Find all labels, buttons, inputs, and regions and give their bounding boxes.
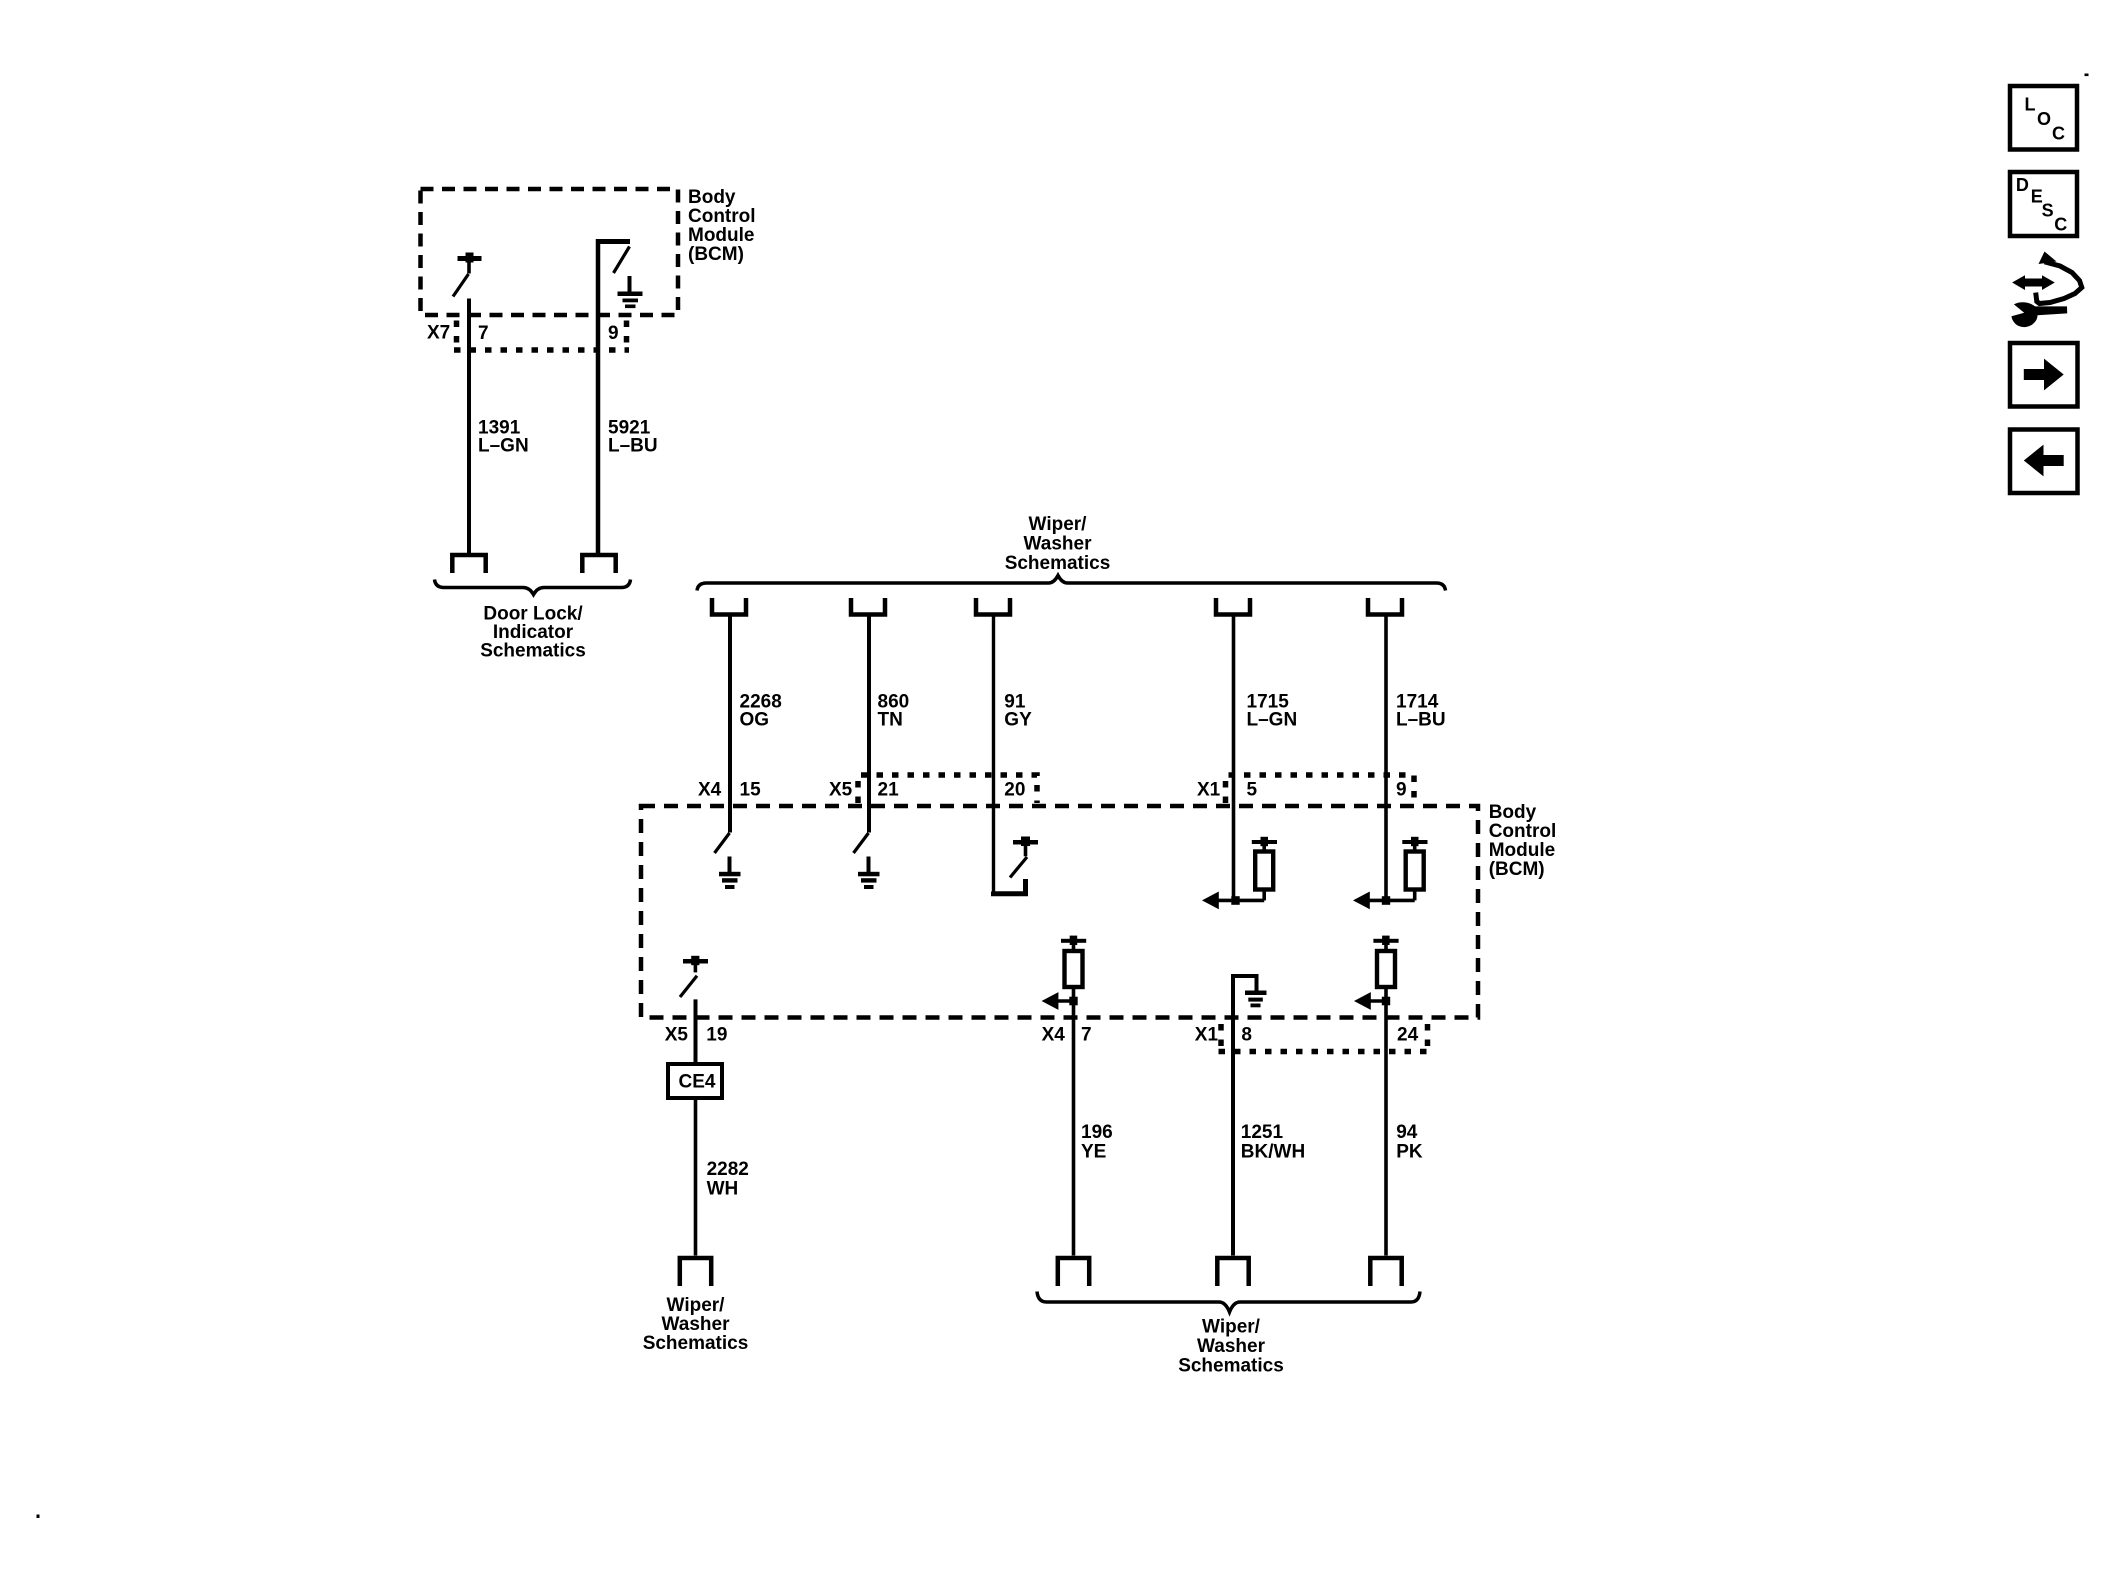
svg-text:9: 9 xyxy=(1396,780,1407,801)
nav icon LOC button xyxy=(2010,86,2077,150)
wire 1715 L-GN xyxy=(1232,616,1236,900)
svg-text:Wiper/: Wiper/ xyxy=(1029,514,1088,535)
driver D-B9 contact (bar with nub, pin 24) xyxy=(1373,936,1398,945)
off-page connector (1715 wire, legs up) xyxy=(1216,598,1250,615)
wire label 94 PK xyxy=(1396,1122,1423,1163)
nav icon wrench xyxy=(2012,302,2068,327)
switch S-B3 lower terminal L-bracket (pin 20) xyxy=(994,879,1026,894)
svg-text:O: O xyxy=(2037,109,2051,129)
BCM box B (dashed outline, main Body Control Module) xyxy=(641,806,1478,1018)
svg-text:24: 24 xyxy=(1397,1025,1419,1046)
svg-text:X5: X5 xyxy=(665,1025,689,1046)
svg-text:YE: YE xyxy=(1081,1142,1106,1163)
svg-text:L–GN: L–GN xyxy=(478,436,529,457)
stray mark bottom left xyxy=(37,1515,40,1519)
driver D-B5 output line with junction dot xyxy=(1367,896,1415,905)
svg-text:X5: X5 xyxy=(829,780,853,801)
svg-text:Control: Control xyxy=(1489,821,1557,842)
switch S-A2 top horizontal arm xyxy=(596,239,630,244)
wire 860 TN xyxy=(867,616,871,833)
wire 2282 WH (below CE4) xyxy=(694,1098,698,1256)
svg-text:Wiper/: Wiper/ xyxy=(667,1295,726,1316)
svg-text:X4: X4 xyxy=(698,780,722,801)
svg-text:X4: X4 xyxy=(1042,1025,1066,1046)
nav icon back-arrow button xyxy=(2010,430,2078,494)
driver D-B7 junction dot xyxy=(1069,987,1077,1005)
wire pin 9 vertical xyxy=(596,239,601,554)
off-page connector (860 wire, legs up) xyxy=(851,598,885,615)
wire 2268 OG xyxy=(728,616,732,833)
switch S-B3 blade xyxy=(1010,857,1027,878)
nav icon double-arrow xyxy=(2012,275,2055,290)
wire label 5921 L-BU xyxy=(608,418,658,457)
nav icon next-arrow button xyxy=(2010,343,2078,407)
svg-text:Module: Module xyxy=(688,225,755,246)
wire label 860 TN xyxy=(878,692,910,731)
off-page connector (pin9 wire, legs down) xyxy=(582,555,615,573)
connector X1 dotted box (pins 8,24) xyxy=(1219,1024,1431,1052)
off-page connector (91 wire, legs up) xyxy=(976,598,1010,615)
label: Wiper/Washer Schematics (top middle) xyxy=(1005,514,1111,574)
svg-text:5: 5 xyxy=(1247,780,1258,801)
svg-text:L: L xyxy=(2025,95,2036,115)
driver D-B4 arrowhead (left) xyxy=(1202,892,1219,910)
stray mark top right xyxy=(2085,74,2089,77)
wire 91 GY xyxy=(992,616,995,892)
driver D-B9 resistor xyxy=(1377,943,1395,987)
svg-text:C: C xyxy=(2052,124,2065,144)
wire pin 19 down to CE4 xyxy=(694,999,698,1064)
svg-text:L–GN: L–GN xyxy=(1247,710,1298,731)
svg-text:19: 19 xyxy=(706,1025,727,1046)
switch S-B3 contact (bar with nub) xyxy=(1013,837,1038,847)
svg-text:X1: X1 xyxy=(1197,780,1221,801)
switch S-B6 blade xyxy=(680,976,697,997)
driver D-B5 resistor xyxy=(1406,844,1424,900)
ground symbol G-B1 xyxy=(719,857,741,890)
svg-text:94: 94 xyxy=(1396,1122,1418,1143)
switch S-B6 contact (bar with nub, pin X5-19) xyxy=(683,956,708,965)
svg-text:1251: 1251 xyxy=(1241,1122,1284,1143)
svg-text:TN: TN xyxy=(878,710,903,731)
connector X5 dotted box (pins 21,20) xyxy=(858,775,1037,803)
ground symbol G-B2 xyxy=(858,857,880,890)
svg-text:Schematics: Schematics xyxy=(1178,1356,1284,1377)
BCM box A (dashed outline, top-left Body Control Module) xyxy=(421,189,679,315)
driver D-B4 output line with junction dot xyxy=(1216,896,1264,905)
svg-text:15: 15 xyxy=(740,780,762,801)
wire label 196 YE xyxy=(1081,1122,1113,1163)
svg-text:8: 8 xyxy=(1241,1025,1252,1046)
wire 1714 L-BU xyxy=(1384,616,1388,900)
svg-text:GY: GY xyxy=(1004,710,1032,731)
driver D-B9 junction dot xyxy=(1382,987,1390,1005)
svg-text:7: 7 xyxy=(1081,1025,1092,1046)
off-page connector (94 wire, legs down) xyxy=(1370,1258,1401,1286)
wire label 91 GY xyxy=(1004,692,1032,731)
svg-text:WH: WH xyxy=(707,1179,739,1200)
switch S-B1 blade (pin 15) xyxy=(715,833,730,853)
svg-text:Module: Module xyxy=(1489,840,1556,861)
wire label 2268 OG xyxy=(740,692,782,731)
svg-text:OG: OG xyxy=(740,710,770,731)
wire pin X1-8 down xyxy=(1231,974,1235,1256)
svg-text:Control: Control xyxy=(688,206,756,227)
svg-text:CE4: CE4 xyxy=(679,1072,716,1093)
driver D-B5 arrowhead (left) xyxy=(1353,892,1370,910)
driver D-B4 resistor xyxy=(1255,844,1273,900)
off-page connector (2268 wire, legs up) xyxy=(712,598,746,615)
off-page connector (196 wire, legs down) xyxy=(1058,1258,1089,1286)
switch S-A1 blade xyxy=(453,274,469,297)
driver D-B7 contact (bar with nub, pin X4-7) xyxy=(1061,936,1086,945)
svg-text:Wiper/: Wiper/ xyxy=(1202,1317,1261,1338)
driver D-B9 arrow (left) xyxy=(1354,992,1386,1010)
switch S-A1 fixed contact (bar with nub) xyxy=(458,253,482,263)
ground symbol G-B8 xyxy=(1245,991,1267,1008)
svg-text:Schematics: Schematics xyxy=(480,641,586,662)
brace (Wiper/Washer top, apex up) xyxy=(697,576,1446,591)
svg-text:(BCM): (BCM) xyxy=(688,244,744,265)
off-page connector (1251 wire, legs down) xyxy=(1217,1258,1248,1286)
svg-text:PK: PK xyxy=(1396,1142,1423,1163)
splice box CE4 xyxy=(668,1064,722,1098)
svg-text:Schematics: Schematics xyxy=(643,1333,749,1354)
wire label 2282 WH xyxy=(707,1159,749,1200)
switch S-B6 contact lead xyxy=(694,964,698,972)
switch S-B3 contact lead xyxy=(1024,845,1028,856)
ground branch (pin X1-8) top jog xyxy=(1233,976,1257,991)
driver D-B7 arrow (left) xyxy=(1042,992,1074,1010)
label: Door Lock / Indicator Schematics xyxy=(480,604,586,662)
svg-text:2282: 2282 xyxy=(707,1159,749,1180)
svg-text:196: 196 xyxy=(1081,1122,1113,1143)
svg-text:Body: Body xyxy=(688,187,736,208)
svg-text:Washer: Washer xyxy=(1197,1336,1266,1357)
off-page connector (1714 wire, legs up) xyxy=(1368,598,1402,615)
wire pin 24 down xyxy=(1384,1001,1388,1256)
brace (Wiper/Washer bottom, apex down) xyxy=(1037,1292,1420,1313)
svg-text:Washer: Washer xyxy=(1024,534,1093,555)
wire label 1251 BK/WH xyxy=(1241,1122,1305,1163)
ground symbol G-A (inside box A) xyxy=(618,276,643,308)
off-page connector (pin7 wire, legs down) xyxy=(452,555,485,573)
svg-text:20: 20 xyxy=(1004,780,1025,801)
svg-text:7: 7 xyxy=(478,323,489,344)
svg-text:D: D xyxy=(2016,175,2029,195)
switch S-B2 blade (pin 21) xyxy=(854,833,869,853)
wire pin X4-7 down xyxy=(1072,1001,1076,1256)
wire label 1714 L-BU xyxy=(1396,692,1446,731)
driver D-B4 contact (bar with nub, pin 5) xyxy=(1252,837,1277,846)
svg-text:X1: X1 xyxy=(1195,1025,1219,1046)
connector X1 dotted box (pins 5,9) xyxy=(1226,775,1415,803)
nav icon curved arrow xyxy=(2036,252,2082,304)
svg-text:9: 9 xyxy=(608,323,619,344)
label: Wiper/Washer Schematics (bottom left) xyxy=(643,1295,749,1354)
driver D-B5 contact (bar with nub, pin 9) xyxy=(1402,837,1427,846)
label: Body Control Module (BCM) for box B xyxy=(1489,802,1557,880)
wire pin 7 (inside box A down to off-page) xyxy=(467,299,471,555)
svg-text:S: S xyxy=(2042,201,2054,221)
connector X7 dotted box xyxy=(454,321,629,351)
svg-text:L–BU: L–BU xyxy=(608,436,658,457)
wire label 1715 L-GN xyxy=(1247,692,1298,731)
svg-text:C: C xyxy=(2054,215,2067,235)
off-page connector (2282 wire, legs down) xyxy=(680,1258,711,1286)
svg-text:Body: Body xyxy=(1489,802,1537,823)
svg-text:Washer: Washer xyxy=(662,1314,731,1335)
svg-text:(BCM): (BCM) xyxy=(1489,859,1545,880)
svg-text:Schematics: Schematics xyxy=(1005,553,1111,574)
switch S-A1 contact lead xyxy=(467,261,471,274)
driver D-B7 resistor xyxy=(1065,943,1083,987)
brace (Door Lock, apex down) xyxy=(435,580,631,595)
svg-text:X7: X7 xyxy=(427,323,450,344)
svg-text:BK/WH: BK/WH xyxy=(1241,1142,1305,1163)
wire label 1391 L-GN xyxy=(478,418,529,457)
switch S-A2 blade xyxy=(614,247,630,274)
nav icon DESC button xyxy=(2010,172,2077,236)
svg-text:21: 21 xyxy=(878,780,900,801)
label: Body Control Module (BCM) for box A xyxy=(688,187,756,265)
svg-text:L–BU: L–BU xyxy=(1396,710,1446,731)
label: Wiper/Washer Schematics (bottom middle) xyxy=(1178,1317,1284,1377)
